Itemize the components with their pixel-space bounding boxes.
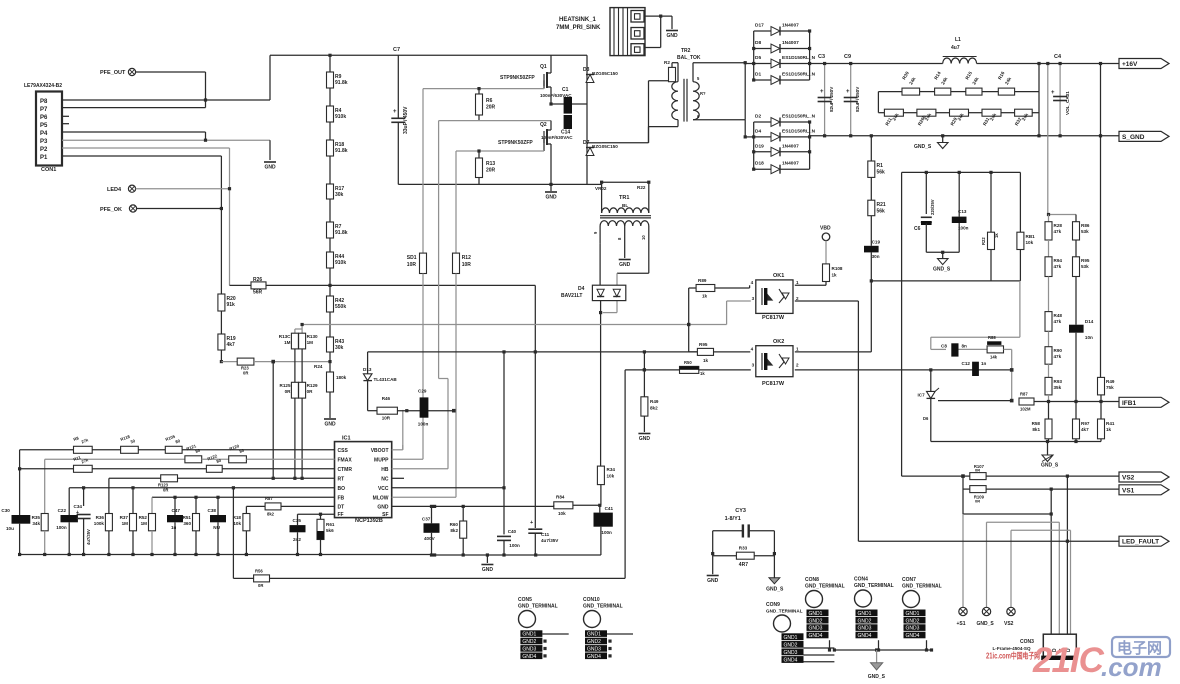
wire diode bank upper left bus: [753, 31, 755, 80]
svg-text:CON7: CON7: [902, 577, 916, 583]
wire output +rail: [810, 63, 943, 65]
svg-text:GND3: GND3: [858, 626, 872, 632]
wire R107 R109 left join: [962, 476, 964, 514]
svg-text:DT: DT: [338, 504, 345, 510]
wire FF row: [298, 513, 335, 515]
svg-text:CTMR: CTMR: [338, 467, 353, 473]
wire tap line to right: [266, 284, 535, 286]
wire VBD to R108: [825, 241, 827, 264]
svg-text:4k7: 4k7: [1081, 427, 1089, 432]
node VS2 R107: [961, 474, 965, 478]
wire rectifier input rail: [745, 63, 754, 65]
wire ladder bottom bus: [931, 441, 1101, 443]
resistor R105 80: [165, 446, 182, 453]
wire snubber top rail: [902, 171, 1021, 173]
resistor R51 360: [195, 497, 197, 513]
svg-text:10k: 10k: [233, 521, 241, 526]
capacitor D14 10n: [1069, 325, 1084, 333]
resistor R21 56k: [868, 200, 875, 216]
svg-text:BZG05C150: BZG05C150: [592, 71, 618, 76]
svg-text:10k: 10k: [558, 511, 566, 516]
connector CON8 pin block: [807, 610, 829, 617]
capacitor C14 100nF/630VAC: [564, 115, 572, 129]
wire GND pin bus: [392, 505, 554, 507]
svg-text:56k: 56k: [877, 170, 886, 176]
node snubber gnd rail tap: [870, 279, 873, 282]
svg-text:91.8k: 91.8k: [335, 80, 348, 86]
svg-text:VBOOT: VBOOT: [371, 448, 389, 454]
wire diode bank lower left bus: [753, 122, 755, 169]
svg-text:GND2: GND2: [784, 642, 798, 648]
wire test point GND_S path gray: [986, 522, 988, 607]
diode D2 ES1D150RL_N: [754, 121, 771, 123]
wire top rail to C7: [397, 55, 399, 118]
resistor R11 27k: [74, 465, 93, 472]
svg-text:10k: 10k: [1026, 240, 1034, 245]
wire: [1048, 331, 1050, 346]
svg-text:R24: R24: [314, 364, 323, 369]
resistor R19 4k7: [218, 334, 225, 350]
svg-text:53k: 53k: [1081, 229, 1089, 234]
svg-text:Q2: Q2: [540, 122, 547, 128]
svg-text:10R: 10R: [407, 262, 417, 268]
wire R46 to C29 node: [397, 410, 453, 412]
svg-text:R41: R41: [1106, 421, 1115, 426]
resistor R34 10k: [600, 465, 602, 467]
wire bridge right leg: [586, 55, 588, 184]
svg-text:LED_FAULT: LED_FAULT: [1122, 539, 1159, 546]
svg-text:GND_TERMINAL: GND_TERMINAL: [902, 584, 942, 590]
wire CON3 feed 2: [1066, 476, 1068, 634]
wire chain bottom: [329, 392, 331, 418]
svg-text:+: +: [1051, 90, 1055, 96]
svg-text:C35: C35: [293, 518, 302, 523]
svg-text:91.8k: 91.8k: [335, 230, 348, 236]
svg-text:GND_S: GND_S: [977, 621, 995, 627]
diode D7 BZG05C150: [586, 148, 594, 156]
wire CON9 links: [804, 647, 835, 649]
resistor R95b 53k: [1075, 240, 1077, 257]
wire heatsink pad3 ground: [660, 16, 662, 47]
resistor R32 24k: [1001, 112, 1015, 114]
wire chain: [329, 122, 331, 140]
feedback node bus y352: [368, 351, 698, 353]
wire CSS row right: [182, 449, 334, 451]
svg-text:47k: 47k: [1054, 319, 1062, 324]
wire VBOOT column: [402, 410, 404, 450]
wire chain: [329, 88, 331, 106]
svg-text:91k: 91k: [227, 302, 236, 308]
svg-text:CON3: CON3: [1020, 639, 1034, 645]
svg-text:C37: C37: [422, 517, 431, 522]
connector CON4 ring: [855, 590, 872, 607]
svg-text:GND2: GND2: [858, 618, 872, 624]
svg-text:D19: D19: [755, 143, 764, 149]
wire +rail after L1: [977, 63, 1119, 65]
port PFE_OUT: [128, 68, 135, 75]
resistor R9 91.8k: [327, 72, 334, 88]
svg-text:GND3: GND3: [784, 650, 798, 656]
resistor R130 1M: [299, 333, 306, 349]
svg-text:CY3: CY3: [735, 508, 746, 514]
svg-text:102M: 102M: [1020, 407, 1031, 412]
svg-text:R46: R46: [382, 396, 391, 401]
svg-text:82uF / 250V: 82uF / 250V: [829, 86, 834, 112]
wire PFE_OK to P1 column: [137, 208, 222, 210]
wire FB row: [152, 496, 335, 498]
svg-text:8n: 8n: [962, 343, 968, 348]
wire CSS left column: [19, 450, 21, 515]
svg-text:GND1: GND1: [587, 632, 601, 638]
svg-text:400V: 400V: [424, 536, 436, 541]
svg-text:C9: C9: [844, 54, 851, 60]
wire heatsink pad1 to ground: [644, 15, 672, 17]
svg-text:GND4: GND4: [858, 633, 872, 639]
capacitor C35 2n2: [297, 514, 299, 525]
wire D4 to junction: [600, 301, 602, 313]
resistor R44 910k: [327, 252, 334, 268]
svg-text:D5: D5: [755, 55, 761, 61]
wire VS2 line to flag: [986, 475, 1119, 477]
resistor R7 91.8k: [327, 222, 334, 238]
wire CON4 stack down: [878, 640, 880, 650]
wire to pin2 node: [1004, 348, 1012, 350]
capacitor C34 4u7/35V: [83, 488, 85, 506]
svg-text:1n: 1n: [981, 361, 987, 366]
gray feedback bus: [303, 324, 727, 326]
svg-text:CON9: CON9: [766, 602, 780, 608]
svg-text:4: 4: [751, 347, 754, 352]
svg-text:P4: P4: [40, 131, 48, 137]
svg-text:D13: D13: [363, 367, 372, 372]
connector CON7 pin block: [904, 610, 926, 617]
svg-text:7MM_PRI_SINK: 7MM_PRI_SINK: [556, 25, 601, 31]
resistor R29 24k: [936, 112, 950, 114]
svg-text:1k: 1k: [700, 371, 705, 376]
svg-text:C22: C22: [58, 508, 67, 513]
svg-text:1M: 1M: [284, 340, 291, 345]
svg-text:D18: D18: [755, 161, 764, 167]
connector CON5 pin block: [520, 630, 542, 637]
svg-text:10R: 10R: [462, 262, 472, 268]
svg-text:CON4: CON4: [854, 577, 868, 583]
resistor R26b 24k: [903, 112, 917, 114]
wire bridge to TR1: [587, 142, 602, 144]
svg-text:Q1: Q1: [540, 64, 547, 70]
svg-text:ES1D150RL_N: ES1D150RL_N: [782, 72, 816, 78]
svg-text:R6: R6: [486, 98, 493, 104]
flag LED_FAULT: [1119, 536, 1169, 546]
svg-text:GND: GND: [666, 33, 678, 39]
resistor R90 47k: [1045, 347, 1052, 365]
svg-text:R58: R58: [1032, 421, 1041, 426]
svg-text:GND: GND: [324, 422, 336, 428]
svg-text:1-8/Y1: 1-8/Y1: [725, 516, 741, 522]
resistor R109 0R: [963, 488, 970, 490]
watermark dianziwang blue box: [1112, 637, 1170, 657]
svg-text:1M: 1M: [141, 521, 148, 526]
resistor R16 24k: [982, 91, 998, 93]
capacitor C13 100n: [958, 172, 960, 216]
wire CSS row right: [92, 449, 120, 451]
svg-text:2: 2: [796, 296, 799, 301]
wire C6 C13 common to GND_S: [926, 251, 959, 253]
svg-text:PFE_OK: PFE_OK: [100, 207, 122, 213]
capacitor C8 8n: [931, 348, 946, 350]
svg-text:P1: P1: [40, 155, 48, 161]
svg-text:GND3: GND3: [809, 626, 823, 632]
wire feedback tap line: [230, 284, 252, 286]
wire +16V gray feed: [1047, 64, 1049, 215]
capacitor C7 33uF/450V: [391, 117, 405, 119]
resistor R58 8k1: [1048, 402, 1050, 420]
svg-text:100nF/630VAC: 100nF/630VAC: [541, 135, 573, 140]
wire terminal common bus: [834, 649, 931, 651]
resistor R87 102M: [1019, 398, 1034, 405]
resistor R31 24k: [969, 112, 983, 114]
wire HB pin: [392, 468, 448, 470]
svg-text:R125: R125: [280, 383, 291, 388]
svg-text:+: +: [530, 520, 533, 526]
svg-text:FMAX: FMAX: [338, 457, 353, 463]
svg-text:FF: FF: [338, 512, 344, 518]
svg-text:VS2: VS2: [1004, 621, 1014, 627]
capacitor C6 220u/35V: [925, 172, 927, 214]
test point VS2: [1007, 607, 1015, 615]
wire chain: [329, 55, 331, 72]
wire CY3 left leg: [713, 530, 743, 532]
svg-text:MLOW: MLOW: [373, 495, 389, 501]
wire diode bank lower right bus: [809, 122, 811, 169]
node chain tap R26 line: [328, 284, 331, 287]
svg-text:P3: P3: [40, 139, 48, 145]
transformer TR1 core: [600, 215, 651, 217]
wire P1 column segment: [220, 209, 222, 295]
resistor R13C 1M: [291, 333, 298, 349]
resistor R22 1k: [990, 172, 992, 232]
svg-text:1M: 1M: [122, 521, 129, 526]
wire P1 column to tap line: [220, 350, 222, 362]
capacitor C40 100n: [497, 535, 511, 537]
wire FMAX column gray: [44, 459, 46, 513]
diode D8 1N4007: [754, 48, 771, 50]
svg-text:VS2: VS2: [1122, 475, 1135, 482]
wire FMAX row right: [246, 458, 334, 460]
wire bottom row to rail riser: [1032, 112, 1039, 114]
svg-text:D6: D6: [923, 416, 929, 421]
resistor R50 1k OK2 pin3: [699, 369, 751, 371]
svg-text:GND: GND: [619, 262, 631, 268]
test point +S1: [959, 607, 967, 615]
resistor R18b 10k: [245, 506, 247, 513]
resistor R125 0R: [291, 382, 298, 398]
svg-text:GND2: GND2: [587, 639, 601, 645]
svg-text:GND4: GND4: [522, 654, 536, 660]
svg-text:R33: R33: [739, 546, 748, 551]
svg-text:BL: BL: [622, 203, 628, 208]
svg-text:OK1: OK1: [773, 273, 784, 279]
svg-text:R49: R49: [1106, 379, 1115, 384]
wire LED_FAULT line: [858, 540, 1119, 542]
svg-text:C38: C38: [208, 508, 217, 513]
svg-text:P5: P5: [40, 123, 48, 129]
svg-text:R22: R22: [637, 185, 646, 190]
diode D5 ES1D150RL_N: [754, 63, 771, 65]
svg-text:8k2: 8k2: [650, 406, 658, 411]
svg-text:R2: R2: [664, 60, 670, 65]
svg-text:GND: GND: [545, 195, 557, 201]
wire OK1 pin3 gray: [727, 300, 751, 302]
svg-text:NCP1392B: NCP1392B: [355, 518, 383, 524]
svg-text:VR02: VR02: [595, 186, 607, 191]
wire IC7 cathode down: [930, 398, 932, 441]
resistor R13 20R: [478, 151, 480, 158]
svg-text:+: +: [846, 89, 850, 95]
wire ladder top node: [1048, 214, 1076, 216]
svg-text:GND1: GND1: [522, 632, 536, 638]
svg-text:0R: 0R: [975, 468, 980, 473]
ground GND_S CY3: [769, 578, 780, 584]
resistor R118 30: [121, 446, 139, 453]
svg-text:0R: 0R: [258, 583, 263, 588]
svg-text:CON5: CON5: [518, 597, 532, 603]
wire RT column: [108, 478, 110, 513]
svg-text:4k7: 4k7: [227, 342, 236, 348]
svg-text:R13: R13: [486, 161, 495, 167]
wire riser to top rail: [269, 55, 271, 100]
svg-text:R48: R48: [1054, 313, 1063, 318]
svg-text:R94: R94: [1054, 258, 1063, 263]
resistor R14 24k: [920, 91, 935, 93]
wire test point VS2 path gray: [1010, 530, 1012, 607]
svg-text:D4: D4: [755, 128, 761, 134]
svg-text:10k: 10k: [607, 474, 615, 479]
svg-text:C6: C6: [914, 226, 921, 232]
wire PFE_OUT to node: [136, 71, 206, 73]
wire CTMR row right: [92, 468, 206, 470]
svg-text:910k: 910k: [335, 260, 346, 266]
wire snubber bottom rail: [871, 280, 1020, 282]
wire FMAX row gray: [45, 458, 185, 460]
svg-text:MUPP: MUPP: [374, 457, 389, 463]
resistor R48 47k: [1045, 312, 1052, 332]
svg-text:20R: 20R: [486, 105, 496, 111]
svg-text:D2: D2: [755, 114, 761, 120]
diode D3 BZG05C150: [586, 75, 594, 83]
svg-text:IC7: IC7: [918, 393, 926, 398]
wire pair columns to RT row: [294, 398, 296, 478]
svg-text:R52: R52: [139, 515, 148, 520]
wire Q2 gate column gray upper: [455, 151, 457, 253]
svg-text:100k: 100k: [94, 521, 105, 526]
svg-text:C47: C47: [172, 508, 181, 513]
svg-text:ES1D150RL_N: ES1D150RL_N: [782, 55, 816, 61]
svg-text:30k: 30k: [335, 345, 344, 351]
svg-text:R37: R37: [120, 515, 129, 520]
flag +16V: [1119, 59, 1169, 69]
svg-text:BAL_TOK: BAL_TOK: [677, 55, 701, 61]
svg-text:ES1D150RL_N: ES1D150RL_N: [782, 114, 816, 120]
wire gray link OK pin1 area: [931, 336, 1020, 338]
capacitor C38 NU: [217, 497, 219, 515]
wire: [202, 458, 229, 460]
svg-text:0R: 0R: [285, 389, 292, 394]
resistor R23 0R: [237, 358, 254, 365]
svg-text:GND_S: GND_S: [868, 674, 886, 680]
resistor R24 180k: [327, 372, 334, 392]
svg-text:34k: 34k: [32, 521, 40, 526]
wire: [870, 216, 872, 246]
ground GND_S terminals: [876, 650, 878, 663]
resistor R89b 75k sense: [1100, 376, 1102, 378]
wire IC decoupling rail: [435, 554, 601, 556]
svg-text:BZG05C150: BZG05C150: [592, 144, 618, 149]
wire HB column: [438, 121, 440, 379]
transformer TR1 secondary winding: [600, 221, 625, 226]
svg-text:D4: D4: [578, 286, 585, 292]
svg-text:82uF / 250V: 82uF / 250V: [855, 86, 860, 112]
resistor R95 1k: [697, 348, 713, 355]
svg-text:56k: 56k: [877, 209, 886, 215]
connector CON3 bottom bar: [1041, 656, 1077, 660]
svg-text:R22: R22: [981, 237, 986, 245]
wire TR2 secondary return: [744, 120, 746, 137]
wire Q1 gate column gray upper: [422, 89, 424, 254]
svg-text:R61: R61: [326, 522, 335, 527]
resistor R18 91.8k: [327, 140, 334, 156]
wire bus to OK2 pin3 column: [270, 577, 626, 579]
wire LED4 to P2 column: [136, 188, 230, 190]
resistor R42 550k: [327, 296, 334, 312]
svg-text:GND3: GND3: [906, 626, 920, 632]
ground GND bridge: [550, 184, 552, 191]
transformer TR2 secondary winding: [693, 82, 699, 120]
svg-text:SF: SF: [382, 512, 388, 518]
wire: [870, 177, 872, 200]
svg-text:PC817W: PC817W: [762, 381, 785, 387]
wire Q1 source node: [439, 120, 551, 122]
ground GND heatsink: [666, 30, 678, 32]
resistor R52 1M: [151, 497, 153, 513]
wire VBOOT pin: [392, 449, 403, 451]
svg-text:GND_S: GND_S: [1041, 463, 1059, 469]
svg-text:R87: R87: [265, 496, 273, 501]
svg-text:1N4007: 1N4007: [782, 23, 799, 29]
svg-text:D14: D14: [1085, 319, 1094, 324]
svg-text:GND_TERMINAL: GND_TERMINAL: [854, 583, 894, 589]
svg-text:RB1: RB1: [1026, 234, 1036, 239]
svg-text:GND2: GND2: [906, 618, 920, 624]
wire Q1 gate column to IC MUPP: [422, 274, 424, 460]
svg-text:3: 3: [752, 296, 755, 301]
wire Q2 gate column to IC MLOW: [455, 274, 457, 498]
capacitor C3 82uF/250V: [824, 64, 826, 136]
capacitor C9 82uF/250V: [850, 64, 852, 136]
resistor ladder2 R86 53k: [1075, 215, 1077, 222]
svg-text:C30: C30: [1, 508, 10, 513]
svg-text:IFB1: IFB1: [1122, 400, 1136, 407]
svg-text:TR2: TR2: [681, 48, 691, 54]
svg-text:C34: C34: [74, 504, 83, 509]
capacitor C19 30n: [864, 246, 879, 253]
wire snubber left leg: [901, 172, 903, 476]
wire TR1 secondary left to D4: [599, 244, 601, 286]
connector CON1: [36, 92, 62, 166]
resistor R41 1k: [1100, 402, 1102, 420]
svg-text:P6: P6: [40, 115, 48, 121]
svg-text:GND1: GND1: [809, 611, 823, 617]
svg-text:R12: R12: [462, 255, 471, 261]
